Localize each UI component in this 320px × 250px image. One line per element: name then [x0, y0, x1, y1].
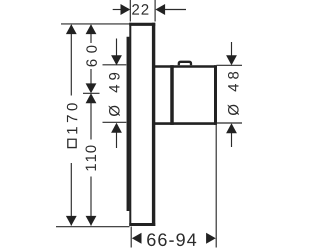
arrow 60/110 bowtie upper (points down) [86, 83, 97, 93]
arrow 48 bottom (points up) [226, 123, 237, 133]
arrow 48 top (points down) [226, 55, 237, 65]
dim 22: left leader [113, 9, 122, 11]
dim 170: dimension line lower part [70, 163, 72, 226]
dim 66-94: right extension line [215, 124, 217, 248]
dim 48: bottom extension line [217, 122, 243, 124]
sleeve/knob bottom edge [155, 122, 216, 125]
arrow 66-94 left (points left) [132, 233, 142, 244]
dim 49: top extension line [103, 64, 127, 66]
dim 49: bottom arrow tail [116, 132, 118, 149]
dim 22: right extension line [154, 0, 156, 22]
arrow 110 bottom (points down) [86, 216, 97, 226]
knob left edge [170, 65, 174, 125]
escutcheon plate bottom edge [129, 223, 155, 226]
arrow 49 bottom (points up) [111, 123, 122, 133]
escutcheon plate left edge [129, 23, 131, 226]
dim 48: bottom arrow tail [231, 132, 233, 147]
label 60: ink span 20.8 cap 10.6 [86, 46, 97, 67]
arrow 22 left (points right) [121, 4, 131, 15]
arrow 170 bottom (points down) [66, 216, 77, 226]
arrow 22 right (points left) [155, 4, 165, 15]
label dia49: ink span 43.3 cap 11.1 [109, 73, 120, 116]
knob right edge [214, 65, 217, 125]
wall flange behind plate [127, 37, 130, 211]
node: valve centre tick [83, 92, 100, 94]
arrow 60 top (points up) [86, 24, 97, 34]
arrow 170 top (points up) [66, 24, 77, 34]
dim 48: top arrow tail [231, 42, 233, 57]
label 66-94: ink span 49.0 cap 12.7 [147, 233, 196, 246]
dim 48: top extension line [217, 64, 243, 66]
label sq170: ink span 44.9 cap 10.6 [67, 103, 78, 148]
arrow 49 top (points down) [111, 55, 122, 65]
dim 170: dimension line upper part [70, 25, 72, 96]
label 110: ink span 25.1 cap 10.6 [85, 145, 96, 170]
dim 170: bottom extension line [56, 226, 130, 228]
sleeve/knob top edge [155, 65, 216, 68]
dim 66-94: left extension line [130, 227, 132, 248]
dim 49: bottom extension line [103, 121, 127, 123]
dim 22: right leader [164, 9, 186, 11]
label 22: ink span 16.2 cap 10.5 [132, 4, 148, 14]
dim 49: top arrow tail [116, 39, 118, 57]
escutcheon plate top edge [129, 23, 155, 26]
arrow 60/110 bowtie lower (points up) [86, 93, 97, 103]
knob top grip bump [179, 62, 191, 65]
label dia48: ink span 43.3 cap 11.1 [228, 72, 239, 115]
dim 22: left extension line [129, 0, 131, 22]
dim 170: top extension line [61, 23, 130, 25]
dim 60/110: dimension line segments [90, 25, 92, 43]
escutcheon plate right edge [152, 23, 155, 226]
arrow 66-94 right (points right) [206, 233, 216, 244]
